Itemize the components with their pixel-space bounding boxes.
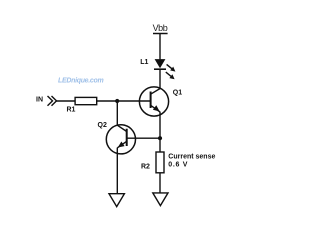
svg-text:L1: L1 — [140, 59, 148, 66]
svg-text:IN: IN — [36, 97, 43, 104]
svg-text:0.6 V: 0.6 V — [168, 161, 188, 168]
wire Q1 emitter to R2 — [159, 112, 161, 153]
svg-text:Current sense: Current sense — [168, 153, 215, 160]
ground below Q2 — [109, 194, 124, 207]
label current sense — [168, 153, 215, 168]
svg-text:R1: R1 — [67, 107, 76, 114]
transistor Q2 — [98, 122, 136, 154]
transistor Q1 — [139, 87, 182, 116]
junction node Q1e/R2/Q2b — [158, 136, 162, 140]
wire Vbb to LED anode — [159, 34, 161, 60]
wire Q2 base — [127, 137, 160, 139]
junction node R1/Q1b/Q2c — [115, 99, 119, 103]
input port IN — [36, 96, 57, 106]
wire Q2 emitter to ground — [116, 148, 118, 194]
svg-text:LEDnique.com: LEDnique.com — [58, 77, 103, 84]
LED light arrow 2 — [166, 72, 175, 79]
wire IN to Q1 base — [57, 100, 151, 102]
LED light arrow 1 — [167, 64, 176, 71]
svg-text:Vbb: Vbb — [153, 23, 168, 33]
svg-text:R2: R2 — [141, 163, 150, 170]
ground below R2 — [153, 193, 168, 206]
svg-text:Q1: Q1 — [173, 89, 182, 96]
svg-text:Q2: Q2 — [98, 122, 107, 129]
wire R2 to ground — [159, 173, 161, 192]
LED L1 — [154, 59, 166, 69]
wire Q2 collector up to node — [116, 101, 118, 125]
wire LED cathode to Q1 collector — [159, 70, 161, 89]
power symbol Vbb — [153, 23, 168, 34]
resistor R1 — [67, 97, 97, 113]
resistor R2 — [141, 152, 164, 173]
